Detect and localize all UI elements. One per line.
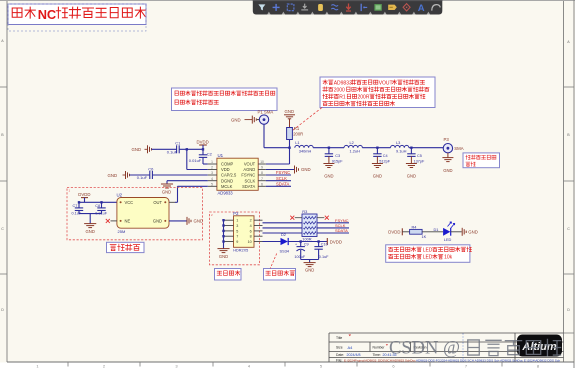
wire L2 to C4 node [362,147,390,149]
svg-text:SS34: SS34 [280,248,290,253]
image viewer toolbar background [253,0,442,15]
svg-text:4: 4 [250,224,252,228]
svg-text:SDATA: SDATA [242,184,255,189]
svg-text:VCC: VCC [125,200,134,205]
resistor R4 1K [410,229,423,234]
ground below header [217,248,229,250]
wire MCLK to oscillator [178,185,208,187]
wire to R1 node [264,147,290,149]
R3 row1 no-connect stubs [295,217,302,219]
sheet frame left border [6,1,8,362]
svg-text:SDATA: SDATA [276,182,290,187]
svg-text:6: 6 [250,229,252,233]
svg-text:GND: GND [162,189,171,194]
LED arrows [448,222,452,227]
note box "NC default not soldered" [8,4,146,25]
supply rail to VCC [79,201,117,203]
capacitor C2 0.01uF [199,154,207,156]
callout dashed line to R1 [293,108,323,131]
svg-text:1K: 1K [422,234,427,239]
svg-text:GND: GND [301,167,311,172]
svg-text:4: 4 [211,177,213,181]
ground below C4 [372,163,383,165]
callout dashed line to D2 [270,254,277,269]
svg-text:MCLK: MCLK [221,184,233,189]
wire DVDD to R4 [402,231,409,233]
ground below C7 C8 [84,223,96,225]
selection dashed rect around note [8,4,146,31]
ground below P3 [447,153,449,158]
net label SCLK (header side) [317,227,349,229]
junction C4 node [376,147,378,149]
svg-text:SCLK: SCLK [276,176,287,181]
toolbar icon: filter funnel [258,4,265,10]
svg-text:DGND: DGND [221,178,233,183]
svg-text:P3: P3 [444,137,450,142]
svg-text:D2: D2 [281,232,286,237]
connector P1 SMA circle [259,115,268,124]
wire SMA shield stub [257,119,260,121]
svg-text:R1: R1 [294,126,300,131]
wire VDD from C1 node [186,149,188,169]
IC U1 body [217,158,258,190]
oscillator U2 body [117,198,169,229]
svg-text:Title: Title [336,336,342,340]
annotation box: direct output note [172,88,278,111]
wires header to R3 [263,222,303,224]
U2 pin dots [120,201,122,203]
sheet frame bottom border [7,361,574,363]
svg-text:7: 7 [236,235,238,239]
ground below caps [304,262,316,264]
svg-text:A4: A4 [348,345,354,350]
svg-text:100R: 100R [302,236,311,241]
svg-text:0.1uF: 0.1uF [167,149,178,154]
svg-text:5: 5 [211,182,213,186]
svg-text:HDR2X5: HDR2X5 [233,248,248,252]
ground right of LED [461,228,463,236]
zone ticks bottom [67,362,69,367]
net label FSYNC (header side) [317,222,349,224]
toolbar icon: ruler bar [360,4,362,11]
toolbar icon: yellow cylinder [318,4,323,11]
toolbar icon: plus [273,6,280,8]
svg-text:0.1uF: 0.1uF [137,175,148,180]
svg-text:L3: L3 [396,140,400,145]
resistor network R3 body [302,214,317,237]
title block outline [329,332,564,334]
wire header pin10 to diode [263,241,281,243]
svg-text:LED: LED [423,248,433,254]
svg-text:VOUT: VOUT [244,162,256,167]
svg-text:9: 9 [261,166,263,170]
svg-text:C10: C10 [321,243,328,247]
dashed group box oscillator [67,188,203,240]
ground right of AGND [294,166,296,174]
svg-text:GND: GND [231,117,241,122]
svg-text:25M: 25M [118,229,126,234]
svg-text:GND: GND [285,109,295,114]
power DVDD right [326,238,328,245]
svg-text:R4: R4 [412,224,418,229]
svg-text:A: A [418,3,425,14]
inductor L2 [344,145,362,147]
capacitor C9 100uF polarized [300,242,302,247]
gnd rail below caps [301,259,319,261]
svg-text:AD9833: AD9833 [334,80,352,86]
wire VOUT riser [289,148,291,164]
capacitor C1 0.1uF [176,145,178,153]
svg-text:200R: 200R [358,95,370,101]
svg-text:C9: C9 [304,243,309,247]
svg-text:10: 10 [260,160,264,164]
svg-text:C: C [567,227,570,231]
svg-text:Number: Number [373,346,386,350]
wire C1 to DVDD stem [179,148,203,150]
svg-text:GND: GND [86,229,95,234]
svg-text:CAP/2.5: CAP/2.5 [221,173,237,178]
resistor R1 [287,128,293,140]
capacitor C3 915pF [328,148,330,154]
ground below DGND [161,183,173,185]
wire AGND to ground [266,169,294,171]
junction C10 [317,240,319,242]
svg-text:D1: D1 [434,227,439,232]
svg-text:2: 2 [211,166,213,170]
junction C3 node [328,147,330,149]
wire R4 to D1 [422,231,443,233]
capacitor C7 0.1uF [78,202,80,208]
svg-text:GND: GND [132,147,142,152]
svg-text:AGND: AGND [243,167,255,172]
note text (red CJK) [12,7,145,22]
junction node R1 [288,147,290,149]
svg-text:L1: L1 [295,140,299,145]
svg-text:DVDD: DVDD [330,239,342,244]
svg-text:100uF: 100uF [294,255,305,259]
svg-text:10: 10 [248,240,252,244]
image top border line [0,0,575,2]
svg-text:GND: GND [153,219,162,224]
svg-text:DVDD: DVDD [197,140,209,145]
label box crystal clock [107,242,145,252]
svg-text:SDATA: SDATA [335,228,348,233]
svg-text:+: + [295,242,297,246]
net label FSYNC [266,174,291,176]
svg-text:SCLK: SCLK [244,178,255,183]
svg-text:DVDD: DVDD [78,192,90,197]
capacitor C5 137pF [410,148,412,154]
toolbar separator carets [267,12,270,15]
svg-text:Date:: Date: [336,353,344,357]
svg-text:NE: NE [125,219,131,224]
svg-text:3: 3 [211,171,213,175]
svg-text:6: 6 [261,182,263,186]
svg-text:1.2uH: 1.2uH [350,149,361,154]
sheet frame right outer border [573,0,575,368]
svg-text:0.01uF: 0.01uF [189,158,202,163]
svg-text:AD9833-DDS-FG2024-AD9833 DDS S: AD9833-DDS-FG2024-AD9833 DDS SCH AD9833 … [416,358,560,362]
wire from P1 down [263,124,265,147]
annotation box: LED resistor note [386,245,470,262]
header left stubs to gnd bus [224,219,234,221]
title block dotted divider [462,334,464,362]
ground below C5 [406,163,417,165]
U2 GND pin wire [169,220,187,222]
U1 pin stubs [208,163,217,165]
toolbar icon: green image [374,4,381,11]
svg-text:C8: C8 [95,204,100,208]
wire L3 to C5 node [409,147,443,149]
svg-text:CSDN @: CSDN @ [389,339,460,359]
svg-text:C6: C6 [148,167,154,172]
ground right of U2 [186,217,188,225]
svg-text:E:\2024Project\AD9833_DDS\SCH\: E:\2024Project\AD9833_DDS\SCH\AD9833.Sch… [344,358,416,362]
toolbar icon: dashed selection box [287,4,294,11]
svg-text:C7: C7 [73,204,78,208]
sheet frame right inner border [563,1,565,362]
svg-text:1: 1 [211,160,213,164]
toolbar icon: collapse arrow [301,9,308,11]
junction C1 node [186,148,188,150]
svg-text:P1 SMA: P1 SMA [258,110,274,115]
toolbar icon: undo arc [432,5,440,11]
svg-text:GND: GND [305,268,314,273]
svg-text:U1: U1 [218,153,224,158]
svg-text:D: D [1,308,4,312]
capacitor C8 0.01uF [101,202,103,208]
svg-text:3: 3 [236,224,238,228]
inductor L1 [295,145,313,147]
header body [234,216,255,248]
toolbar icon: red download arrow [346,4,350,10]
svg-text:LED: LED [423,255,433,261]
gnd bus vertical [223,220,225,248]
svg-text:8: 8 [250,235,252,239]
wire gnd to C6 [130,174,150,176]
svg-text:LED: LED [444,237,452,242]
svg-text:200R: 200R [293,132,303,137]
svg-text:GND: GND [373,174,382,179]
R3 zigzag elements [304,217,316,219]
zone ticks left [0,86,7,88]
net label SDATA [266,185,291,187]
annotation box: internal 200ohm note [320,77,435,108]
svg-text:FSYNC: FSYNC [241,173,255,178]
zone ticks right [564,86,575,88]
svg-text:C: C [1,227,4,231]
svg-text:340mH: 340mH [299,149,312,154]
label box data interface [215,269,242,281]
U2 NE pin no-connect [111,220,117,222]
svg-text:2024/4/8: 2024/4/8 [347,353,361,357]
toolbar icon: waves [331,5,338,10]
svg-text:Time:: Time: [373,353,381,357]
svg-text:File:: File: [336,358,342,362]
junction DVDD node [202,148,204,150]
inductor L3 [391,145,409,147]
wire DGND to ground [167,180,208,182]
annotation box: filtered output [463,153,500,168]
svg-text:D: D [567,308,570,312]
ground below C3 [323,163,334,165]
svg-text:GND: GND [443,168,452,173]
svg-text:C1: C1 [175,141,181,146]
svg-text:7: 7 [261,177,263,181]
wire C6 to CAP pin [152,174,207,176]
toolbar icon: red diamond [403,4,410,11]
svg-text:C3: C3 [335,154,340,158]
svg-text:GND: GND [219,254,228,259]
Altium logo [517,335,562,357]
header right stubs [254,219,263,221]
svg-text:GND: GND [324,174,333,179]
svg-text:FSYNC: FSYNC [276,170,290,175]
U2 OUT stub [169,201,175,203]
svg-text:GND: GND [407,174,416,179]
CSDN watermark [389,339,561,359]
wire R1 to node [289,140,291,148]
svg-text:GND: GND [468,229,478,234]
svg-text:OUT: OUT [153,200,162,205]
svg-text:U2: U2 [117,192,123,197]
svg-text:R1: R1 [339,95,346,101]
svg-text:GND: GND [194,219,204,224]
junction C8 tap [100,201,102,203]
svg-text:NC: NC [38,7,56,22]
svg-text:C5: C5 [417,154,422,158]
svg-text:9.1uH: 9.1uH [396,149,407,154]
svg-text:VOUT: VOUT [379,80,393,86]
svg-text:2: 2 [250,219,252,223]
diode D2 SS34 [281,238,288,245]
net label SCLK [266,180,291,182]
svg-text:R3: R3 [302,209,307,214]
wire L1 to C3 node [313,147,344,149]
svg-text:DVDD: DVDD [388,229,400,234]
svg-text:8: 8 [261,171,263,175]
capacitor C4 512pF [376,148,378,154]
wire C2 to COMP [202,157,204,164]
svg-text:10k: 10k [444,255,453,261]
svg-text:1: 1 [236,219,238,223]
wire D1 to GND [451,231,462,233]
wire gnd to C1 [152,148,177,150]
net label SDATA (header side) [317,232,349,234]
svg-text:5: 5 [236,229,238,233]
wire diode to caps [288,241,327,243]
label box reverse supply protect [264,269,296,281]
svg-text:AD9833: AD9833 [218,191,234,196]
svg-text:Size: Size [336,346,343,350]
svg-text:C2: C2 [207,151,213,156]
junction C9 [300,240,302,242]
svg-text:C4: C4 [383,154,388,158]
junction C5 node [410,147,412,149]
junction C7 tap [78,201,80,203]
capacitor C10 0.1uF [318,242,320,247]
wire caps bottom rail [79,213,102,215]
dashed group box data interface [210,212,260,265]
svg-text:9: 9 [236,240,238,244]
svg-text:L2: L2 [350,140,354,145]
capacitor C6 0.1uF series [149,171,151,179]
svg-text:2000: 2000 [334,87,345,93]
svg-text:VDD: VDD [221,167,230,172]
svg-text:GND: GND [108,173,118,178]
svg-text:0.1uF: 0.1uF [319,255,329,259]
svg-text:SMA: SMA [454,146,463,151]
toolbar icon: yellow tag [388,5,397,10]
svg-text:COMP: COMP [221,162,234,167]
